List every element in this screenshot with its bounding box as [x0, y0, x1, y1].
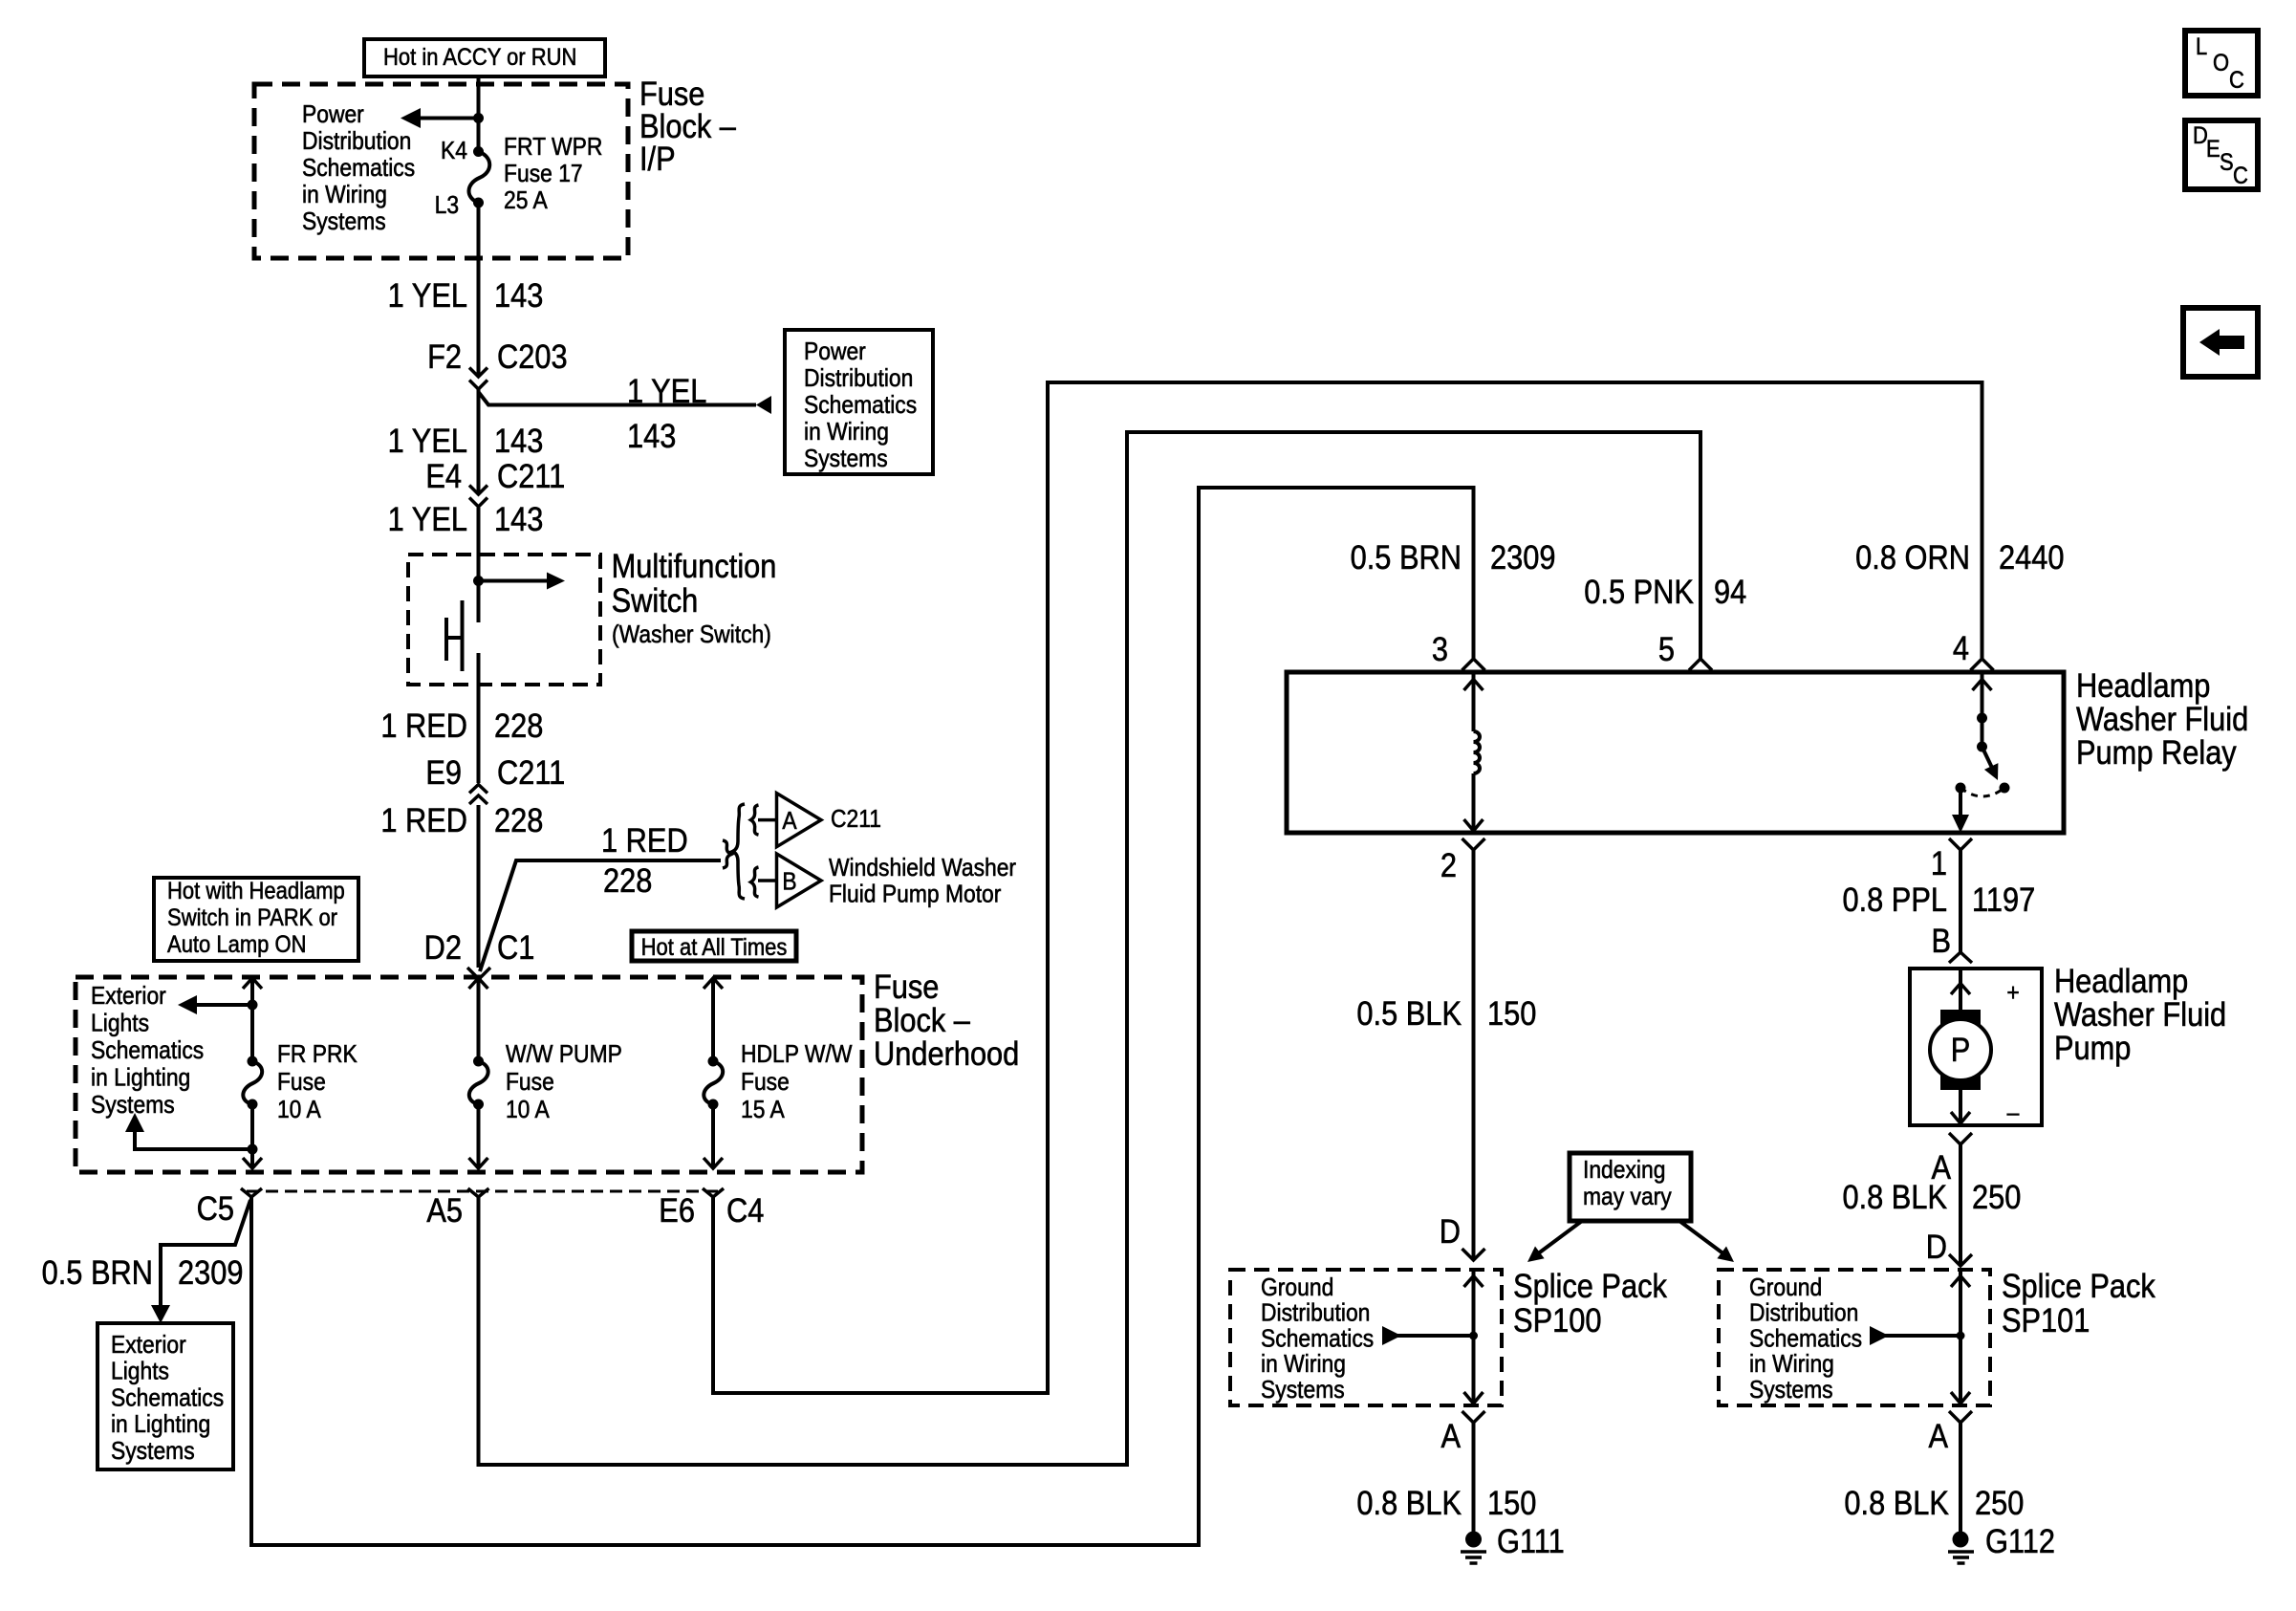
svg-text:FRT WPR: FRT WPR — [504, 134, 602, 162]
svg-text:B: B — [782, 868, 796, 896]
svg-text:250: 250 — [1975, 1484, 2024, 1521]
svg-text:Switch: Switch — [612, 581, 699, 619]
svg-text:0.5 PNK: 0.5 PNK — [1584, 573, 1694, 610]
svg-text:2309: 2309 — [1490, 538, 1555, 576]
svg-text:in Wiring: in Wiring — [302, 182, 387, 209]
svg-text:Windshield Washer: Windshield Washer — [829, 855, 1016, 882]
svg-text:SP101: SP101 — [2002, 1301, 2090, 1339]
svg-text:A: A — [1928, 1417, 1948, 1454]
svg-text:FR PRK: FR PRK — [277, 1041, 357, 1069]
svg-text:C: C — [2229, 67, 2244, 94]
svg-text:in Wiring: in Wiring — [1261, 1351, 1346, 1379]
svg-text:Washer Fluid: Washer Fluid — [2054, 995, 2226, 1033]
svg-text:C: C — [2233, 163, 2248, 189]
svg-text:3: 3 — [1432, 630, 1448, 667]
svg-text:Multifunction: Multifunction — [612, 547, 777, 584]
svg-text:C211: C211 — [497, 753, 565, 791]
svg-text:C211: C211 — [831, 806, 881, 834]
svg-text:E9: E9 — [425, 753, 462, 791]
svg-text:Schematics: Schematics — [1261, 1325, 1374, 1353]
svg-text:Power: Power — [302, 101, 364, 129]
svg-text:A: A — [1440, 1417, 1461, 1454]
svg-text:0.8 ORN: 0.8 ORN — [1855, 538, 1970, 576]
svg-text:1 RED: 1 RED — [380, 801, 467, 838]
svg-text:C211: C211 — [497, 457, 565, 494]
svg-text:2440: 2440 — [1999, 538, 2064, 576]
svg-text:F2: F2 — [427, 337, 462, 375]
svg-text:1 RED: 1 RED — [380, 707, 467, 744]
svg-text:Systems: Systems — [804, 446, 888, 473]
svg-text:1 RED: 1 RED — [601, 821, 688, 859]
svg-text:Hot with Headlamp: Hot with Headlamp — [167, 878, 345, 904]
svg-text:Systems: Systems — [111, 1438, 195, 1466]
svg-text:(Washer Switch): (Washer Switch) — [612, 621, 771, 649]
svg-text:Systems: Systems — [302, 208, 386, 236]
svg-text:Switch in PARK or: Switch in PARK or — [167, 904, 337, 931]
svg-text:SP100: SP100 — [1513, 1301, 1601, 1339]
svg-text:B: B — [1931, 922, 1951, 959]
svg-text:Ground: Ground — [1749, 1274, 1822, 1302]
svg-text:A5: A5 — [426, 1191, 463, 1229]
svg-text:15 A: 15 A — [741, 1097, 785, 1124]
svg-text:Systems: Systems — [1749, 1377, 1833, 1404]
svg-text:E4: E4 — [425, 457, 462, 494]
svg-text:Block –: Block – — [874, 1001, 971, 1038]
svg-text:Washer Fluid: Washer Fluid — [2076, 700, 2248, 737]
svg-text:1 YEL: 1 YEL — [388, 422, 467, 459]
svg-text:W/W PUMP: W/W PUMP — [506, 1041, 622, 1069]
svg-text:C1: C1 — [497, 928, 534, 966]
svg-text:143: 143 — [494, 422, 543, 459]
svg-text:Schematics: Schematics — [111, 1384, 224, 1412]
svg-text:Schematics: Schematics — [91, 1037, 204, 1065]
svg-text:150: 150 — [1487, 994, 1536, 1032]
svg-text:L3: L3 — [435, 192, 459, 220]
svg-text:228: 228 — [494, 801, 543, 838]
svg-text:in Wiring: in Wiring — [1749, 1351, 1834, 1379]
svg-text:Pump Relay: Pump Relay — [2076, 733, 2237, 771]
svg-text:Lights: Lights — [91, 1010, 149, 1037]
svg-text:Fuse: Fuse — [741, 1069, 790, 1097]
svg-text:1197: 1197 — [1972, 881, 2035, 918]
svg-text:Power: Power — [804, 338, 866, 366]
svg-text:C4: C4 — [726, 1191, 764, 1229]
svg-text:Splice Pack: Splice Pack — [2002, 1267, 2155, 1304]
svg-text:E6: E6 — [659, 1191, 695, 1229]
svg-text:A: A — [782, 808, 797, 836]
svg-text:I/P: I/P — [639, 140, 676, 177]
svg-text:Underhood: Underhood — [874, 1034, 1019, 1072]
svg-text:94: 94 — [1714, 573, 1746, 610]
svg-text:Exterior: Exterior — [111, 1332, 186, 1360]
svg-text:Fuse: Fuse — [874, 968, 939, 1005]
svg-text:143: 143 — [494, 500, 543, 537]
svg-text:1: 1 — [1931, 844, 1947, 882]
svg-text:Auto Lamp ON: Auto Lamp ON — [167, 931, 306, 958]
svg-text:0.8 BLK: 0.8 BLK — [1844, 1484, 1949, 1521]
svg-text:150: 150 — [1487, 1484, 1536, 1521]
svg-text:Ground: Ground — [1261, 1274, 1333, 1302]
svg-text:Distribution: Distribution — [302, 128, 411, 156]
svg-text:Systems: Systems — [1261, 1377, 1345, 1404]
svg-text:Fluid Pump Motor: Fluid Pump Motor — [829, 881, 1001, 908]
svg-text:Headlamp: Headlamp — [2076, 666, 2210, 704]
svg-text:1 YEL: 1 YEL — [388, 276, 467, 314]
svg-text:10 A: 10 A — [506, 1097, 550, 1124]
svg-text:D2: D2 — [424, 928, 462, 966]
svg-text:2: 2 — [1440, 846, 1457, 883]
svg-text:Fuse 17: Fuse 17 — [504, 161, 583, 188]
svg-text:Schematics: Schematics — [804, 392, 917, 420]
svg-text:C203: C203 — [497, 337, 568, 375]
svg-text:Exterior: Exterior — [91, 983, 166, 1011]
svg-text:Systems: Systems — [91, 1092, 175, 1120]
svg-text:0.5 BLK: 0.5 BLK — [1356, 994, 1462, 1032]
svg-text:Fuse: Fuse — [277, 1069, 326, 1097]
svg-text:Schematics: Schematics — [1749, 1325, 1862, 1353]
svg-text:4: 4 — [1953, 629, 1969, 666]
svg-text:0.5 BRN: 0.5 BRN — [42, 1253, 153, 1291]
svg-text:C5: C5 — [197, 1189, 234, 1227]
svg-text:–: – — [2007, 1099, 2020, 1127]
svg-text:1 YEL: 1 YEL — [627, 372, 706, 409]
svg-text:Splice Pack: Splice Pack — [1513, 1267, 1667, 1304]
svg-text:Headlamp: Headlamp — [2054, 962, 2188, 999]
svg-text:D: D — [1440, 1212, 1461, 1250]
svg-text:+: + — [2006, 980, 2019, 1008]
svg-text:K4: K4 — [441, 138, 467, 165]
svg-text:HDLP W/W: HDLP W/W — [741, 1041, 853, 1069]
svg-text:Hot at All Times: Hot at All Times — [641, 934, 788, 961]
svg-text:may vary: may vary — [1583, 1184, 1672, 1211]
svg-text:0.8 PPL: 0.8 PPL — [1842, 881, 1947, 918]
svg-text:E: E — [2206, 136, 2220, 163]
svg-text:in Lighting: in Lighting — [91, 1064, 190, 1092]
svg-text:1 YEL: 1 YEL — [388, 500, 467, 537]
svg-text:2309: 2309 — [178, 1253, 243, 1291]
svg-text:Indexing: Indexing — [1583, 1157, 1665, 1185]
svg-text:228: 228 — [494, 707, 543, 744]
svg-text:Hot in ACCY or RUN: Hot in ACCY or RUN — [383, 44, 576, 71]
svg-text:143: 143 — [494, 276, 543, 314]
svg-text:G112: G112 — [1985, 1522, 2055, 1559]
svg-text:G111: G111 — [1497, 1522, 1565, 1559]
svg-text:0.8 BLK: 0.8 BLK — [1356, 1484, 1462, 1521]
svg-text:0.8 BLK: 0.8 BLK — [1842, 1178, 1947, 1215]
svg-text:D: D — [1926, 1228, 1947, 1265]
svg-text:Schematics: Schematics — [302, 155, 415, 183]
svg-text:10 A: 10 A — [277, 1097, 321, 1124]
svg-text:Distribution: Distribution — [1749, 1299, 1858, 1327]
svg-text:S: S — [2220, 149, 2234, 176]
svg-text:Distribution: Distribution — [804, 365, 913, 393]
svg-text:O: O — [2213, 50, 2229, 76]
svg-text:in Lighting: in Lighting — [111, 1411, 210, 1439]
svg-text:Distribution: Distribution — [1261, 1299, 1370, 1327]
svg-text:143: 143 — [627, 417, 676, 454]
svg-text:25 A: 25 A — [504, 187, 548, 215]
svg-text:L: L — [2196, 33, 2207, 60]
svg-text:0.5 BRN: 0.5 BRN — [1351, 538, 1462, 576]
svg-text:250: 250 — [1972, 1178, 2021, 1215]
svg-text:in Wiring: in Wiring — [804, 419, 889, 446]
svg-text:5: 5 — [1658, 630, 1675, 667]
svg-text:228: 228 — [603, 861, 652, 899]
svg-text:Fuse: Fuse — [506, 1069, 554, 1097]
svg-text:P: P — [1951, 1031, 1971, 1068]
svg-text:Pump: Pump — [2054, 1029, 2131, 1066]
svg-text:Lights: Lights — [111, 1358, 169, 1385]
